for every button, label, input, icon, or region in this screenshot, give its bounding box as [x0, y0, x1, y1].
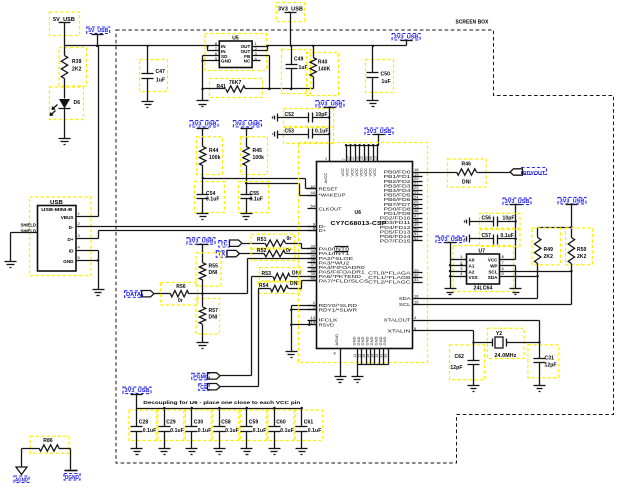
svg-text:3: 3 [325, 157, 327, 161]
U6 pin 42 RESET [308, 188, 317, 190]
USB pin 1 VBUS [77, 216, 99, 218]
svg-text:DATA: DATA [126, 292, 141, 298]
U5 pin 6 SD [203, 55, 220, 57]
svg-text:C58: C58 [221, 420, 231, 426]
capacitor C28 0.1uF [129, 410, 158, 441]
U6 pin 8 D+ [308, 230, 317, 232]
svg-text:GND: GND [382, 337, 387, 346]
U6 pin 9 D- [308, 226, 317, 228]
svg-text:AGND: AGND [334, 334, 339, 346]
svg-text:0.1uF: 0.1uF [250, 197, 264, 203]
analog ground AGND [21, 449, 23, 467]
svg-text:A2: A2 [469, 269, 475, 274]
U6 pin 31 CTL2/*FLAGC [413, 282, 423, 284]
connector USB USB-MINI-B [30, 197, 92, 276]
svg-text:PD7/FD15: PD7/FD15 [380, 239, 412, 244]
capacitor C54 [195, 182, 225, 213]
svg-text:0r: 0r [287, 236, 292, 242]
svg-text:DNI: DNI [292, 271, 301, 277]
svg-text:31: 31 [414, 277, 419, 282]
U6 pin 52 PD7/FD15 [413, 240, 423, 242]
svg-text:76K7: 76K7 [229, 80, 241, 86]
wire U7 left bus to ground [450, 260, 452, 289]
U7 pin 8 VCC [500, 259, 516, 261]
svg-text:USB-MINI-B: USB-MINI-B [41, 207, 73, 212]
svg-text:12: 12 [353, 354, 357, 358]
wire RDY0 net [292, 305, 317, 307]
power symbol 3V3_USB top [277, 3, 305, 22]
svg-text:0.1uF: 0.1uF [280, 428, 294, 434]
capacitor C47 [140, 60, 168, 92]
svg-text:0.1uF: 0.1uF [225, 428, 239, 434]
svg-text:43: 43 [360, 156, 364, 160]
svg-text:RSVD: RSVD [319, 322, 334, 327]
wire PGM0 to R53 [251, 277, 253, 376]
U6 GND pin 26 [366, 349, 368, 365]
U6 pin 2 RDY1/*SLWR [308, 309, 317, 311]
svg-text:SCREEN BOX: SCREEN BOX [456, 20, 490, 26]
U6 pin 38 PA5/FIFOADR1 [308, 271, 317, 273]
svg-text:2K2: 2K2 [544, 254, 554, 260]
ground below C61 [301, 432, 303, 449]
wire XTALIN net [423, 330, 474, 332]
U6 VCC pin 27 stub [355, 146, 357, 162]
svg-text:RDYOUT: RDYOUT [523, 171, 546, 177]
ground below C31 [539, 363, 541, 386]
capacitor C59 0.1uF [239, 410, 268, 441]
svg-text:PA7/*FLD/SLCS: PA7/*FLD/SLCS [319, 279, 369, 284]
ground below R57 [197, 342, 209, 344]
svg-text:*WAKEUP: *WAKEUP [319, 193, 346, 198]
svg-text:D6: D6 [74, 100, 81, 106]
svg-text:USB: USB [50, 200, 63, 206]
wire 3V3 to R49 R50 [571, 205, 573, 238]
svg-text:16: 16 [414, 293, 419, 298]
net label 3V3_USB AVCC [316, 101, 344, 108]
ground below C30 [191, 432, 193, 449]
svg-text:0.1uF: 0.1uF [198, 428, 212, 434]
U6 pin 46 PD1/FD9 [413, 213, 423, 215]
svg-text:Decoupling for U6 - place one: Decoupling for U6 - place one close to e… [143, 400, 300, 405]
svg-text:R46: R46 [462, 162, 472, 168]
port TX [216, 251, 227, 258]
wire decoupling bus [137, 408, 302, 410]
capacitor C30 0.1uF [184, 410, 213, 441]
svg-text:140K: 140K [318, 67, 331, 73]
svg-text:14: 14 [311, 320, 316, 325]
capacitor C58 0.1uF [211, 410, 240, 441]
svg-text:C49: C49 [294, 57, 304, 63]
wire VCC bus [378, 135, 380, 146]
U7 pin 5 SDA [500, 276, 538, 278]
resistor R86 [30, 436, 69, 453]
svg-text:C60: C60 [276, 420, 286, 426]
wire WAKEUP net [247, 183, 300, 185]
svg-text:VBUS: VBUS [61, 215, 74, 220]
U6 pin 22 PB4/FD4 [413, 190, 423, 192]
resistor R49 2K2 [532, 228, 561, 265]
svg-text:0.1uF: 0.1uF [143, 428, 157, 434]
net label 3V3_USB U7 VCC [503, 198, 531, 205]
svg-text:17: 17 [346, 156, 350, 160]
U6 pin 15 SCL [413, 304, 423, 306]
svg-text:SCL: SCL [399, 302, 412, 307]
ground below C58 [219, 432, 221, 449]
wire RDY ground rail [291, 306, 293, 352]
capacitor C56 [480, 213, 521, 228]
svg-text:A1: A1 [469, 264, 475, 269]
svg-text:2K2: 2K2 [72, 67, 82, 73]
svg-text:R56: R56 [176, 284, 186, 290]
U6 pin 54 CLKOUT [308, 208, 317, 210]
svg-text:C52: C52 [285, 112, 295, 118]
svg-text:R45: R45 [253, 148, 263, 154]
ground below U7 left [445, 288, 457, 290]
wire D- to U6 [91, 226, 317, 228]
net label 3V3_USB [392, 34, 420, 41]
svg-text:100k: 100k [253, 155, 265, 161]
U6 pin 20 PB2/FD2 [413, 181, 423, 183]
svg-text:CTL2/*FLAGC: CTL2/*FLAGC [368, 280, 410, 285]
svg-text:VCC: VCC [372, 168, 377, 177]
resistor R50 2K2 [566, 228, 593, 265]
svg-text:SDA: SDA [399, 296, 411, 301]
USB pin 5 GND [77, 260, 99, 262]
svg-text:0.1uF: 0.1uF [308, 428, 322, 434]
LED D6 [50, 87, 84, 120]
U6 pin 4 XTALOUT [413, 320, 423, 322]
ground below C55 [246, 199, 248, 214]
U6 VCC pin 7 stub [346, 146, 348, 162]
svg-text:GND: GND [63, 259, 74, 264]
U5 pin 1 OUT [253, 46, 268, 48]
ground below C28 [136, 432, 138, 449]
wire VBUS to 5V rail [98, 46, 100, 217]
U6 VCC pin 53 stub [368, 146, 370, 162]
capacitor C60 0.1uF [266, 410, 295, 441]
net label 3V3_USB R49 R50 [558, 197, 586, 204]
port CE [199, 384, 210, 391]
U6 pin 1 RDY0/*SLRD [308, 305, 317, 307]
svg-text:12pF: 12pF [450, 365, 462, 371]
U7 pin 6 SCL [500, 271, 572, 273]
U6 pin 29 CTL0/*FLAGA [413, 272, 423, 274]
U6 PA1 INT1 overline [335, 251, 349, 253]
svg-text:D+: D+ [67, 237, 73, 242]
svg-text:32: 32 [355, 156, 359, 160]
U6 pin 33 PA0/INT0 [308, 248, 317, 250]
svg-text:2K2: 2K2 [577, 254, 587, 260]
U6 GND pin 41 [383, 349, 385, 365]
svg-text:C53: C53 [285, 129, 295, 135]
svg-text:1uF: 1uF [156, 78, 165, 84]
USB pin 4 ID [77, 250, 99, 252]
IC U6 CY7C68013-CSP [299, 143, 428, 363]
U5 pin 4 NC [253, 60, 261, 62]
U6 GND pin 28 [370, 349, 372, 365]
capacitor C50 [366, 60, 394, 93]
U5 pin 7 IN [207, 46, 209, 51]
net label 5V_USB [87, 27, 110, 34]
svg-text:3V3_USB: 3V3_USB [192, 122, 217, 128]
wire XTALOUT net [423, 320, 540, 322]
wire R56 node to PA2 [247, 259, 249, 294]
wire R52 to PA1 [286, 253, 317, 255]
ground below C50 [367, 100, 379, 102]
capacitor C52 [284, 109, 334, 127]
svg-text:R57: R57 [209, 308, 219, 314]
U6 PA0 INT0 overline [335, 246, 349, 248]
U7 pin 2 A1 [451, 265, 467, 267]
resistor R40 140K [307, 53, 339, 96]
resistor R55 DNI [196, 253, 221, 286]
svg-text:34: 34 [371, 354, 375, 358]
ground below USB [93, 289, 105, 291]
svg-text:15: 15 [414, 299, 419, 304]
svg-text:R40: R40 [318, 60, 328, 66]
resistor R45 100k [241, 137, 268, 175]
ground below C54 [202, 199, 204, 214]
U6 pin 23 PB5/FD5 [413, 194, 423, 196]
U6 pin 24 PB6/FD6 [413, 199, 423, 201]
U6 pin 19 PB1/FD1 [413, 176, 423, 178]
resistor R41 76K7 [210, 79, 263, 98]
svg-text:R41: R41 [217, 84, 227, 90]
wire U5 ground rail [202, 56, 204, 101]
port DATA [125, 291, 143, 298]
svg-text:C56: C56 [482, 216, 492, 222]
U5 pin 5 GND [203, 60, 220, 62]
U5 pin 3 FB [253, 55, 270, 57]
U5 pin 2 OUT [253, 50, 268, 52]
svg-text:3V3_USB: 3V3_USB [560, 198, 585, 204]
svg-text:C31: C31 [545, 356, 555, 362]
svg-text:24.0MHz: 24.0MHz [495, 353, 517, 359]
EEPROM U7 24LC64 [453, 246, 513, 292]
U6 pin 51 PD6/FD14 [413, 236, 423, 238]
svg-text:R49: R49 [544, 247, 554, 253]
screen box border [116, 30, 614, 463]
svg-text:R52: R52 [257, 248, 267, 254]
ground below U7 WP [510, 288, 522, 290]
wire WP to ground [515, 266, 517, 289]
U7 pin 3 A2 [451, 271, 467, 273]
U6 GND pin 22 [361, 349, 363, 365]
net label 3V3_USB R45 [233, 121, 261, 128]
svg-text:0.1uF: 0.1uF [501, 233, 515, 239]
svg-text:R44: R44 [209, 148, 219, 154]
U6 pin 44 *WAKEUP [308, 195, 317, 197]
svg-text:SCL: SCL [488, 269, 497, 274]
svg-text:41: 41 [379, 354, 383, 358]
svg-text:D+: D+ [319, 228, 327, 233]
svg-text:AVCC: AVCC [323, 173, 328, 184]
resistor R56 0r [161, 283, 198, 306]
capacitor C62 12pF [450, 345, 485, 380]
ground below AGND [335, 376, 347, 378]
svg-text:R86: R86 [43, 438, 53, 444]
resistor R44 100k [197, 137, 223, 175]
resistor R57 DNI [196, 299, 219, 335]
svg-text:39: 39 [375, 354, 379, 358]
svg-text:50: 50 [384, 354, 388, 358]
svg-text:XTALIN: XTALIN [387, 329, 410, 334]
svg-text:0.1uF: 0.1uF [170, 428, 184, 434]
U6 pin 37 PA4/FIFOADR0 [308, 267, 317, 269]
USB pin 2 D- [77, 226, 91, 228]
wire RESET net [203, 178, 306, 180]
capacitor C49 [282, 50, 311, 94]
U6 pin 40 PA7/*FLD/SLCS [308, 280, 317, 282]
wire R51 to PA0 [286, 243, 302, 245]
wire A0 to 3V3 [450, 243, 452, 260]
U6 pin 18 PB0/FD0 [413, 172, 423, 174]
svg-text:54: 54 [311, 204, 316, 209]
ground below C59 [246, 432, 248, 449]
ground below GND bus [352, 376, 364, 378]
U6 pin 14 RSVD [308, 324, 317, 326]
crystal Y2 24.0MHz [487, 328, 524, 358]
U6 pin 25 PB7/FD7 [413, 204, 423, 206]
svg-text:10pF: 10pF [316, 112, 328, 118]
wire SCL net [423, 304, 572, 306]
svg-text:C61: C61 [304, 420, 314, 426]
svg-text:SHIELD: SHIELD [21, 223, 37, 228]
svg-text:26: 26 [362, 354, 366, 358]
U6 pin 21 PB3/FD3 [413, 185, 423, 187]
U6 GND pin 39 [379, 349, 381, 365]
svg-text:22: 22 [357, 354, 361, 358]
svg-text:12pF: 12pF [545, 363, 557, 369]
svg-text:C57: C57 [482, 233, 492, 239]
svg-text:DNI: DNI [462, 180, 471, 186]
net label 3V3_USB R55 [187, 238, 215, 245]
power symbol 5V_USB [50, 12, 80, 36]
svg-text:53: 53 [364, 156, 368, 160]
capacitor C57 [480, 230, 521, 247]
ground below C60 [274, 432, 276, 449]
net label 3V3_USB R44 [190, 121, 218, 128]
svg-text:D-: D- [69, 225, 74, 230]
svg-text:13: 13 [373, 156, 377, 160]
resistor R51 0r [251, 234, 295, 248]
wire 3V3_USB rail [268, 45, 407, 47]
net label 3V3_USB U7 A0 [436, 236, 464, 243]
svg-text:0r: 0r [178, 298, 183, 304]
svg-text:R55: R55 [209, 264, 219, 270]
U6 GND pin 12 [357, 349, 359, 365]
svg-text:DNI: DNI [209, 270, 218, 276]
port PGM0 [192, 373, 210, 380]
U6 pin 50 PD5/FD13 [413, 231, 423, 233]
U6 pin 13 IFCLK [308, 320, 317, 322]
svg-text:DNI: DNI [209, 315, 218, 321]
capacitor C55 [239, 182, 269, 213]
U6 pin 39 PA6/*PKTEND [308, 276, 317, 278]
ground below D6 [64, 109, 66, 139]
wire CE to R54 [258, 289, 260, 387]
U6 pin 34 PA1/INT1 [308, 253, 317, 255]
wire IFCLK stub [310, 320, 317, 322]
U7 pin 7 WP [500, 265, 516, 267]
U7 pin 4 VSS [451, 276, 467, 278]
svg-text:C47: C47 [156, 69, 166, 75]
svg-text:C28: C28 [139, 420, 149, 426]
svg-text:WP: WP [490, 264, 497, 269]
U6 pin 45 PD0/FD8 [413, 208, 423, 210]
U6 pin 5 XTALIN [413, 330, 423, 332]
svg-text:DGND: DGND [65, 475, 79, 481]
svg-text:100k: 100k [209, 155, 221, 161]
net label 3V3_USB VCC [365, 128, 393, 135]
capacitor C29 0.1uF [156, 410, 185, 441]
svg-text:AGND: AGND [15, 478, 28, 484]
ground below C62 [473, 365, 475, 386]
svg-text:NC: NC [244, 59, 251, 64]
svg-text:3V3_USB: 3V3_USB [394, 35, 419, 41]
svg-text:U7: U7 [479, 249, 486, 255]
resistor R54 DNI [259, 282, 301, 294]
svg-text:SDA: SDA [488, 275, 498, 280]
U6 VCC pin 13 stub [377, 146, 379, 162]
U6 pin 36 PA3/*WU2 [308, 262, 317, 264]
U6 VCC pin 17 stub [350, 146, 352, 162]
wire ID GND to ground [98, 251, 100, 290]
svg-text:Y2: Y2 [496, 331, 502, 337]
svg-text:A0: A0 [469, 258, 475, 263]
svg-text:3V3_USB: 3V3_USB [318, 102, 343, 108]
U6 GND pin 34 [374, 349, 376, 365]
svg-text:5V_USB: 5V_USB [88, 28, 108, 34]
wire D+ to U6 [98, 231, 100, 239]
ground below C47 [147, 79, 149, 102]
svg-text:3V3_USB: 3V3_USB [125, 388, 150, 394]
net label 3V3_USB decoupling [123, 387, 151, 394]
svg-text:C50: C50 [381, 72, 391, 78]
svg-text:TC: TC [220, 242, 228, 248]
svg-text:3V3_USB: 3V3_USB [235, 122, 260, 128]
wire GND bus [358, 364, 389, 366]
resistor R53 DNI [259, 268, 301, 282]
svg-text:RDY1/*SLWR: RDY1/*SLWR [319, 308, 358, 313]
svg-text:10pF: 10pF [503, 216, 515, 222]
svg-text:R51: R51 [257, 237, 267, 243]
svg-text:1uF: 1uF [382, 79, 391, 85]
svg-text:56: 56 [369, 156, 373, 160]
wire RSVD net [292, 324, 317, 326]
svg-text:GND: GND [221, 59, 232, 64]
regulator U5 [205, 34, 267, 71]
svg-text:ID: ID [69, 248, 74, 253]
svg-text:U5: U5 [232, 36, 239, 42]
U6 VCC pin 32 stub [359, 146, 361, 162]
ground below RDY rail [286, 351, 298, 353]
U6 VCC pin 43 stub [364, 146, 366, 162]
svg-text:PGM0: PGM0 [193, 374, 208, 380]
svg-text:R50: R50 [577, 247, 587, 253]
capacitor C31 12pF [528, 345, 559, 378]
resistor R39 [59, 48, 87, 87]
USB pin 3 D+ [77, 238, 99, 240]
svg-text:XTALOUT: XTALOUT [384, 318, 412, 323]
svg-text:R39: R39 [72, 59, 82, 65]
svg-text:3V3_USB: 3V3_USB [189, 239, 214, 245]
ground below C29 [164, 432, 166, 449]
svg-text:VCC: VCC [488, 258, 498, 263]
wire 5V rail [65, 45, 220, 47]
svg-text:0.1uF: 0.1uF [253, 428, 267, 434]
svg-text:R53: R53 [262, 271, 272, 277]
